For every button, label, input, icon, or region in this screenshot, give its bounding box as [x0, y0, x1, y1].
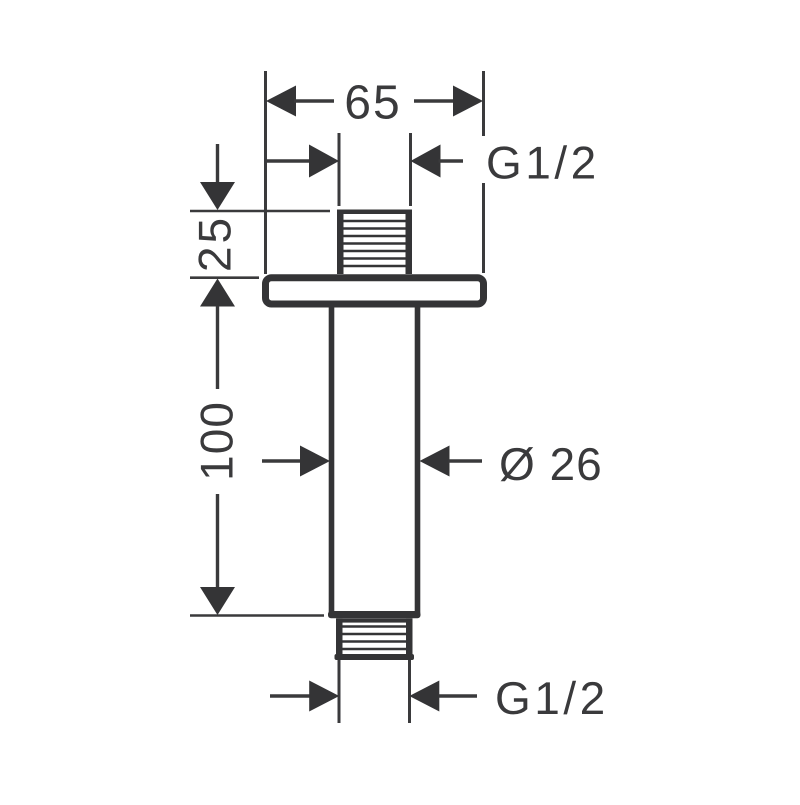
bottom thread right bar [406, 618, 413, 660]
dim 25 / dim 100 shared arrow (up) [200, 279, 235, 307]
dim G1/2 bottom tail right [439, 694, 478, 697]
dim diameter 26 tail left [262, 459, 302, 462]
dim 65 extension line right (upper segment) [482, 71, 485, 136]
top thread left bar [337, 210, 344, 275]
dim 100 lower arrow (down) [200, 587, 235, 615]
dim 65 line left [294, 99, 334, 102]
top thread top bar [337, 210, 412, 215]
dim 100 upper line [216, 306, 219, 389]
dim G1/2 top arrow left [309, 145, 339, 178]
dim G1/2 top tail left [266, 159, 311, 162]
dim diameter 26 arrow right [420, 446, 450, 477]
dim 100 lower line [216, 494, 219, 588]
dim 65 label [347, 85, 398, 119]
dim G1/2 bottom arrow left [309, 681, 339, 712]
dim 65 arrow left [266, 86, 296, 117]
dim 25 extension line top [190, 210, 330, 213]
dim 25 extension line bottom [190, 276, 259, 279]
bottom thread top bar [337, 618, 413, 622]
dim G1/2 bottom label [497, 681, 603, 715]
pipe bottom cap [328, 611, 421, 618]
dim G1/2 bottom extension line right [408, 660, 411, 723]
bottom thread left bar [336, 618, 343, 660]
dim G1/2 top tail right [439, 159, 464, 162]
top thread right bar [406, 210, 413, 275]
dim G1/2 top label [488, 145, 594, 179]
dim 25 upper tail [216, 144, 219, 184]
dim G1/2 top extension line right [409, 133, 412, 206]
dim diameter 26 label [501, 447, 600, 481]
flange plate [266, 278, 484, 304]
dim G1/2 top arrow right [411, 145, 441, 178]
dim 65 extension line left [264, 71, 267, 274]
dim G1/2 bottom arrow right [409, 681, 439, 712]
dim 25 label [198, 220, 231, 270]
dim 100 extension line bottom [190, 614, 324, 617]
dim 65 arrow right [453, 86, 483, 117]
bottom thread bottom bar [335, 654, 415, 660]
dim 65 extension line right (lower segment) [482, 183, 485, 273]
dim 25 upper arrow (down) [200, 182, 235, 210]
dim G1/2 bottom tail left [270, 694, 310, 697]
dim G1/2 top extension line left [338, 133, 341, 206]
dim 100 label [200, 404, 233, 478]
dim diameter 26 arrow left [300, 446, 330, 477]
dim 65 line right [414, 99, 455, 102]
dim diameter 26 tail right [449, 459, 483, 462]
dim G1/2 bottom extension line left [338, 660, 341, 723]
pipe wall right [415, 307, 421, 613]
pipe wall left [329, 307, 335, 613]
bottom thread hatch lines [342, 627, 407, 650]
top thread hatch lines [343, 221, 406, 266]
